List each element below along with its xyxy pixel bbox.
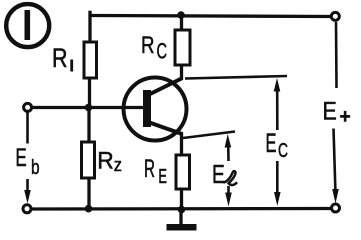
label Eb	[16, 145, 40, 179]
ground	[167, 211, 197, 231]
measurement Ec arrow up	[274, 78, 281, 130]
svg-text:E: E	[212, 159, 225, 189]
wire R1 bottom to base node	[88, 78, 91, 108]
wire base	[29, 106, 144, 109]
measurement Ee arrow down	[225, 186, 232, 207]
svg-text:R: R	[144, 156, 155, 183]
svg-text:z: z	[114, 155, 122, 175]
label Ee	[212, 159, 236, 189]
svg-text:b: b	[31, 156, 40, 179]
svg-text:E: E	[158, 165, 167, 188]
node R2 ground junction	[85, 205, 93, 213]
svg-text:C: C	[157, 39, 168, 64]
node base junction	[85, 104, 93, 112]
wire RE bottom	[180, 189, 183, 209]
wire top rail	[90, 16, 335, 17]
svg-text:E: E	[266, 128, 277, 158]
svg-text:R: R	[97, 147, 114, 174]
terminal input bottom	[23, 205, 31, 213]
measurement Eplus arrow down	[332, 129, 339, 204]
transistor Q1	[124, 78, 187, 141]
terminal supply bottom	[332, 204, 340, 212]
svg-text:R: R	[52, 43, 68, 73]
wire R2 bottom	[87, 178, 90, 209]
svg-text:E: E	[323, 98, 337, 126]
wire collector	[180, 65, 183, 80]
svg-text:+: +	[340, 106, 351, 128]
resistor RC	[175, 30, 190, 65]
label RE	[144, 156, 167, 188]
resistor R1	[84, 42, 97, 78]
figure number circle 1	[6, 4, 49, 47]
svg-text:E: E	[16, 145, 27, 172]
label R1	[52, 43, 73, 73]
measurement Ee arrow up	[225, 134, 232, 161]
measurement Ec arrow down	[274, 161, 281, 206]
label RC	[141, 32, 167, 64]
terminal supply top	[331, 12, 339, 20]
wire RC top	[180, 15, 183, 31]
node RE ground junction	[178, 206, 186, 214]
node RC top junction	[177, 11, 185, 19]
wire emitter	[180, 132, 183, 155]
svg-text:C: C	[278, 139, 288, 162]
measurement Eb arrow down	[24, 179, 31, 204]
wire R1 top	[88, 11, 91, 42]
wire bottom rail	[31, 207, 331, 211]
label R2	[97, 147, 122, 175]
terminal input top	[24, 103, 32, 111]
svg-text:R: R	[141, 32, 155, 59]
resistor RE	[176, 155, 190, 189]
wire collector reference line	[185, 76, 287, 79]
wire emitter reference line	[183, 132, 235, 139]
label Ec	[266, 128, 289, 162]
measurement Eb line upper	[26, 112, 29, 144]
label Eplus	[323, 98, 351, 129]
measurement Eplus line upper	[335, 22, 338, 88]
resistor R2	[82, 142, 95, 178]
wire base node to R2	[87, 108, 90, 143]
